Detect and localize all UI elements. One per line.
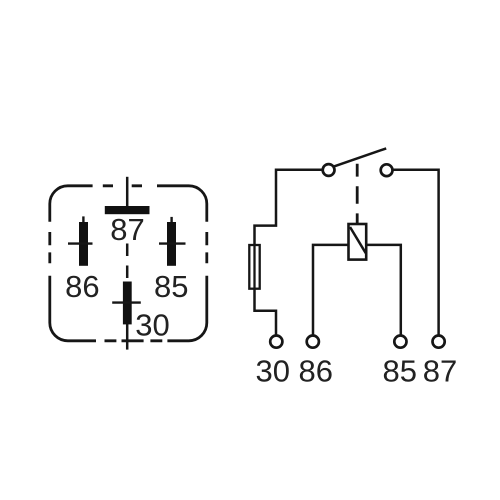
- wire: fixed contact to terminal 87: [393, 170, 439, 335]
- switch arm (open): [334, 148, 386, 166]
- svg-text:30: 30: [256, 354, 290, 389]
- actuator link (dashed) from arm to coil: [356, 164, 359, 224]
- switch contact (movable, pin 30 side): [323, 164, 335, 176]
- vertical centerline (dashed) of pin view: [126, 177, 129, 350]
- coil diagonal line: [350, 227, 366, 253]
- svg-text:87: 87: [423, 354, 457, 389]
- relay body outline (dashed rounded square), corner arcs solid: [50, 186, 207, 341]
- terminal circle 86: [307, 336, 319, 348]
- terminal 86 blade (vertical bar with cross): [68, 216, 93, 265]
- svg-text:85: 85: [382, 354, 416, 389]
- svg-text:86: 86: [299, 354, 333, 389]
- svg-text:87: 87: [110, 212, 144, 247]
- terminal 87 blade (horizontal bar): [105, 206, 150, 214]
- terminal circle 30: [270, 336, 282, 348]
- svg-text:85: 85: [154, 269, 188, 304]
- terminal 85 blade (vertical bar with cross): [159, 217, 186, 266]
- wire: coil to terminal 85: [366, 245, 401, 335]
- terminal 30 blade (vertical bar with cross): [112, 282, 141, 325]
- fuse F (rectangle over wire): [249, 245, 259, 289]
- wire: coil to terminal 86: [313, 245, 349, 335]
- svg-text:30: 30: [135, 308, 169, 343]
- svg-text:86: 86: [65, 269, 99, 304]
- terminal circle 87: [433, 336, 445, 348]
- relay coil K (rectangle): [349, 224, 367, 260]
- wire: common contact 30 branch with jog through fuse: [255, 170, 323, 335]
- wire inside fuse: [253, 245, 255, 289]
- switch contact (fixed, pin 87 side): [381, 164, 393, 176]
- terminal circle 85: [394, 336, 406, 348]
